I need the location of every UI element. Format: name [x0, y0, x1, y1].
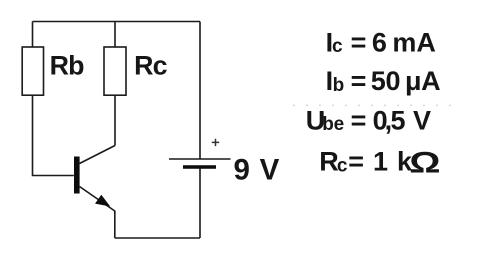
- svg-text:= 50 μA: = 50 μA: [351, 66, 441, 96]
- scan artifact dotted line: [293, 104, 455, 106]
- svg-text:Rb: Rb: [50, 50, 85, 80]
- svg-text:Ω: Ω: [409, 147, 440, 180]
- wire top rail to Rc: [114, 22, 116, 48]
- wire right vertical battery top: [199, 22, 201, 160]
- transistor Q1: [74, 146, 115, 212]
- svg-text:V: V: [413, 105, 431, 135]
- svg-text:= 1 k: = 1 k: [348, 146, 413, 176]
- resistor Rc: [104, 47, 126, 95]
- wire top rail: [33, 21, 201, 23]
- svg-text:c: c: [337, 155, 348, 176]
- svg-text:c: c: [332, 36, 343, 57]
- svg-text:Rc: Rc: [134, 50, 168, 80]
- svg-text:b: b: [333, 75, 345, 96]
- svg-text:= 0: = 0: [351, 105, 388, 135]
- value Ib = 50 uA: [326, 66, 441, 96]
- svg-text:9 V: 9 V: [234, 154, 280, 187]
- wire left vertical to Rb: [32, 22, 34, 48]
- wire emitter vertical: [114, 211, 116, 239]
- battery BT1 9V: [169, 139, 231, 167]
- value Ic = 6 mA: [326, 27, 436, 57]
- svg-text:R: R: [319, 146, 339, 176]
- wire Rc bottom to collector: [114, 95, 116, 146]
- wire battery bottom to ground rail: [199, 168, 201, 239]
- svg-text:,5: ,5: [385, 105, 406, 135]
- wire Rb bottom to base corner: [33, 95, 74, 176]
- svg-text:= 6 mA: = 6 mA: [351, 27, 436, 57]
- resistor Rb: [22, 47, 43, 95]
- value Ube = 0,5 V: [306, 105, 431, 135]
- wire bottom rail: [115, 237, 200, 239]
- value Rc = 1 kOhm: [319, 146, 440, 179]
- svg-text:be: be: [322, 114, 344, 135]
